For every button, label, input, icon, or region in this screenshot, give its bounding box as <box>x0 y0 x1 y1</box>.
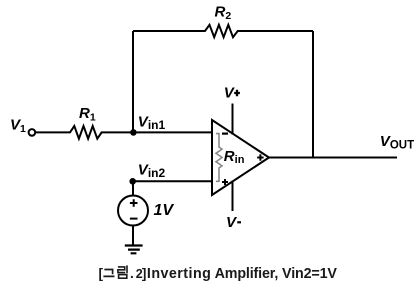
svg-text:Amplifier, Vin2=1V: Amplifier, Vin2=1V <box>215 266 338 282</box>
op-amp inverting input minus sign <box>222 133 228 135</box>
wire: feedback loop left vertical <box>132 31 134 132</box>
node Vin2 junction dot <box>129 178 136 185</box>
wire: Vin2 to op-amp non-inverting input <box>133 180 212 182</box>
op-amp output plus sign <box>257 154 263 160</box>
voltage source minus sign <box>130 218 138 220</box>
voltage source V2 (1V) circle <box>118 196 148 226</box>
voltage source plus sign <box>130 199 138 207</box>
op-amp U1 triangle body <box>212 120 269 195</box>
svg-text:.: . <box>130 266 134 281</box>
wire: Vin2 node down to source <box>132 181 134 196</box>
wire: V- supply <box>232 181 234 212</box>
caption hangul 림 <box>118 265 127 273</box>
wire: source to ground <box>132 226 134 246</box>
resistor Rin (gray) inside op-amp <box>216 134 222 182</box>
wire: input with R1 zigzag to op-amp inverting input <box>35 126 212 139</box>
caption hangul 그 <box>103 270 114 277</box>
op-amp non-inverting input plus sign <box>222 179 228 185</box>
wire: op-amp output <box>269 157 397 159</box>
svg-text:Inverting: Inverting <box>147 266 211 282</box>
node V1 input terminal <box>29 129 36 136</box>
wire: V+ supply <box>232 104 234 135</box>
wire: feedback loop top with R2 zigzag <box>133 25 313 37</box>
svg-text:1V: 1V <box>154 202 175 219</box>
ground <box>125 246 143 254</box>
node Vin1 junction dot <box>130 129 137 136</box>
svg-text:]: ] <box>142 266 147 281</box>
wire: feedback loop right vertical <box>312 31 314 158</box>
svg-text:[: [ <box>99 266 104 281</box>
